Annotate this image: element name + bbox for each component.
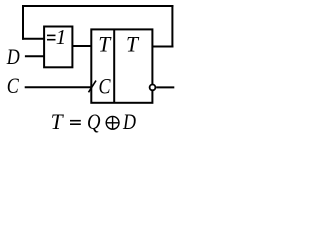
wire: feedback into XOR upper input bbox=[22, 38, 44, 40]
wire: Q-bar output stub bbox=[156, 86, 174, 88]
clock dynamic-input slash bbox=[89, 81, 97, 93]
wire: feedback right vertical bbox=[171, 5, 173, 48]
svg-text:C: C bbox=[7, 73, 19, 98]
svg-text:D: D bbox=[122, 109, 136, 134]
wire: Q output horizontal bbox=[152, 46, 173, 48]
wire: D input bbox=[25, 55, 44, 57]
xor gate U1 box (=1) bbox=[44, 27, 72, 68]
svg-text:T: T bbox=[98, 32, 112, 57]
label: = of =1 (XOR function) bbox=[47, 35, 56, 39]
wire: feedback left vertical bbox=[22, 5, 24, 40]
flip-flop U2 box bbox=[91, 29, 152, 102]
svg-text:T: T bbox=[51, 109, 65, 134]
flip-flop control section divider bbox=[113, 29, 115, 102]
svg-text:T: T bbox=[126, 32, 140, 57]
formula: xor symbol bbox=[106, 116, 119, 129]
wire: C clock input bbox=[25, 86, 92, 88]
svg-text:C: C bbox=[99, 73, 111, 98]
svg-text:D: D bbox=[6, 44, 20, 69]
wire: feedback top horizontal bbox=[22, 5, 173, 7]
svg-text:1: 1 bbox=[56, 25, 66, 49]
svg-text:Q: Q bbox=[87, 109, 101, 134]
formula: = bbox=[70, 121, 81, 125]
output bubble (inverted Q) bbox=[150, 85, 156, 91]
wire: XOR output to T input bbox=[72, 45, 91, 47]
